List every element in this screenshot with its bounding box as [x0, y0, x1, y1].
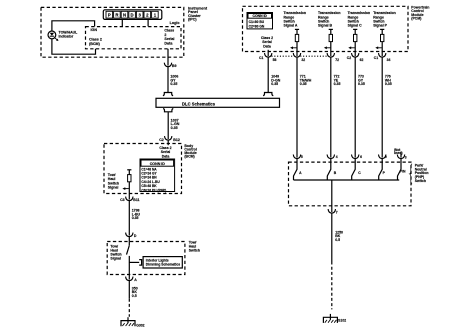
- svg-text:N: N: [123, 13, 126, 18]
- svg-text:Signal: Signal: [110, 257, 121, 261]
- svg-text:0.5: 0.5: [132, 294, 137, 298]
- svg-text:Data: Data: [162, 154, 170, 158]
- svg-text:C3: C3: [120, 198, 125, 202]
- svg-text:C6=16 PU (PNP): C6=16 PU (PNP): [141, 188, 166, 192]
- svg-text:3: 3: [405, 155, 407, 159]
- svg-text:72: 72: [335, 58, 339, 62]
- svg-text:58: 58: [273, 58, 277, 62]
- svg-text:Signal P: Signal P: [373, 24, 387, 28]
- svg-text:G102: G102: [338, 319, 346, 323]
- svg-text:P: P: [108, 13, 111, 18]
- svg-text:7: 7: [336, 210, 338, 214]
- svg-text:Signal C: Signal C: [348, 24, 362, 28]
- svg-text:IGN: IGN: [91, 28, 98, 32]
- svg-text:CONN ID: CONN ID: [150, 162, 166, 166]
- svg-text:P/N: P/N: [400, 170, 406, 174]
- svg-text:B9: B9: [172, 64, 177, 68]
- svg-text:C1: C1: [259, 56, 263, 60]
- svg-text:C1: C1: [374, 56, 378, 60]
- svg-text:0.35: 0.35: [170, 82, 177, 86]
- svg-text:0.35: 0.35: [334, 82, 341, 86]
- svg-text:D: D: [131, 13, 134, 18]
- svg-text:0.35: 0.35: [300, 82, 307, 86]
- svg-text:B12: B12: [173, 138, 180, 142]
- svg-text:Indicator: Indicator: [59, 34, 74, 38]
- svg-text:0.35: 0.35: [358, 82, 365, 86]
- svg-text:0.35: 0.35: [132, 216, 139, 220]
- svg-text:(BCM): (BCM): [184, 154, 194, 158]
- svg-text:Signal B: Signal B: [318, 24, 332, 28]
- svg-text:C2=80 GN: C2=80 GN: [249, 25, 265, 29]
- svg-text:5: 5: [301, 155, 303, 159]
- svg-text:Signal: Signal: [108, 186, 119, 190]
- svg-text:DLC Schematics: DLC Schematics: [182, 102, 216, 107]
- svg-text:G302: G302: [136, 323, 144, 327]
- svg-text:used): used): [394, 151, 403, 155]
- svg-text:Dimming Schematics: Dimming Schematics: [146, 263, 180, 267]
- svg-text:(PCM): (PCM): [411, 17, 421, 21]
- svg-text:32: 32: [301, 58, 305, 62]
- svg-text:C1=80 BU: C1=80 BU: [249, 20, 265, 24]
- svg-text:CONN ID: CONN ID: [253, 14, 268, 18]
- svg-text:(IPC): (IPC): [188, 18, 197, 22]
- svg-text:4: 4: [336, 155, 338, 159]
- svg-text:C2: C2: [159, 138, 164, 142]
- svg-text:B11: B11: [133, 198, 139, 202]
- svg-text:Data: Data: [263, 45, 271, 49]
- svg-text:Switch: Switch: [189, 248, 200, 252]
- svg-text:Switch: Switch: [415, 179, 426, 183]
- svg-text:Logic: Logic: [170, 21, 180, 25]
- svg-text:62: 62: [360, 58, 364, 62]
- svg-text:0.35: 0.35: [385, 82, 392, 86]
- svg-text:0.5: 0.5: [335, 238, 340, 242]
- svg-text:34: 34: [387, 58, 391, 62]
- svg-text:(BCM): (BCM): [89, 42, 101, 46]
- svg-text:C2: C2: [347, 56, 351, 60]
- svg-text:9: 9: [385, 155, 387, 159]
- svg-text:0.35: 0.35: [171, 126, 178, 130]
- svg-text:6: 6: [360, 155, 362, 159]
- svg-text:Signal A: Signal A: [284, 24, 298, 28]
- svg-text:0.35: 0.35: [271, 82, 278, 86]
- svg-text:Data: Data: [164, 42, 173, 46]
